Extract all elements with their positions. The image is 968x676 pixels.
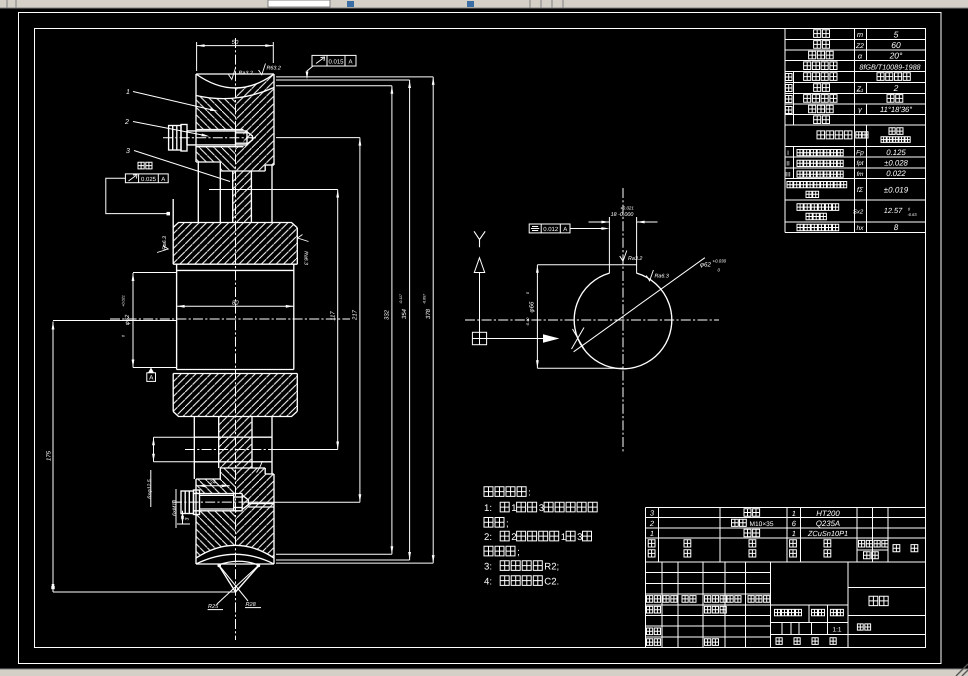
svg-text:3: 3 xyxy=(539,503,544,514)
bolt M10 top: thread xyxy=(235,131,237,145)
UCS Y axis arrow xyxy=(479,273,481,332)
roughness Ra6.3 bore xyxy=(646,270,653,281)
bolt centerline bottom xyxy=(172,501,258,503)
hub sleeve end faces xyxy=(176,264,178,369)
bore bottom edge xyxy=(177,369,294,371)
title block stage mark weight scale xyxy=(775,609,802,615)
svg-text:4:: 4: xyxy=(484,577,492,588)
svg-text:φ62: φ62 xyxy=(124,314,131,325)
tolerance frame 0.025 A xyxy=(125,174,168,183)
roughness Ra3.2 keyway xyxy=(620,251,627,262)
dimension 175 left xyxy=(52,322,54,593)
main vertical centerline xyxy=(235,38,237,640)
svg-text:3: 3 xyxy=(577,532,582,543)
svg-text:3: 3 xyxy=(184,517,190,520)
bolt M10 top: washer xyxy=(181,125,187,152)
rim lower edges xyxy=(195,479,197,564)
dimension 50 top xyxy=(196,42,198,71)
svg-text:m: m xyxy=(857,30,863,39)
table row: inspection header xyxy=(817,131,852,139)
svg-text:φ62: φ62 xyxy=(700,261,711,268)
roughness Ra3.2 on throat xyxy=(229,68,236,80)
dimension 217 xyxy=(359,138,361,503)
title block sheet row xyxy=(776,638,782,645)
dimension 3 xyxy=(182,511,184,524)
svg-text:ZCuSn10P1: ZCuSn10P1 xyxy=(807,529,848,538)
svg-text:0.025: 0.025 xyxy=(141,176,157,183)
tip V lines xyxy=(219,566,235,592)
roughness R63.2 on throat xyxy=(259,64,266,75)
toolbar strip top xyxy=(0,0,968,8)
bolt hole clearance bottom xyxy=(194,494,242,511)
svg-text:3:: 3: xyxy=(484,562,492,573)
svg-text:Ra3.2: Ra3.2 xyxy=(628,256,642,262)
svg-text:Z2: Z2 xyxy=(855,43,864,50)
table row: lead angle xyxy=(809,105,834,113)
hub flange bottom face / keyway line xyxy=(173,263,297,265)
svg-text:50: 50 xyxy=(232,39,239,46)
svg-text:117: 117 xyxy=(329,311,336,321)
svg-text:fΣ: fΣ xyxy=(857,186,864,194)
lower web column hatch xyxy=(219,417,252,469)
svg-text:1: 1 xyxy=(561,532,566,543)
svg-text:12.57: 12.57 xyxy=(884,206,903,215)
small marks right section xyxy=(857,624,870,630)
joint verticals top xyxy=(197,162,199,223)
bolt M10 bottom: washer xyxy=(194,490,200,515)
svg-text:III: III xyxy=(785,171,791,178)
svg-text:18 -0.000: 18 -0.000 xyxy=(611,212,634,218)
svg-text:6×M10: 6×M10 xyxy=(172,500,178,516)
table row: worm type xyxy=(804,73,837,81)
svg-text:80: 80 xyxy=(232,299,239,306)
table row: axis angle tolerance xyxy=(787,182,847,188)
hub flange bottom outline xyxy=(173,411,297,416)
UCS X axis arrow xyxy=(487,338,545,340)
svg-text:8fGB/T10089-1988: 8fGB/T10089-1988 xyxy=(859,63,920,72)
table row: starts z1 2 xyxy=(814,84,830,92)
svg-text:1: 1 xyxy=(792,509,796,518)
dimension phi62 bore xyxy=(132,273,134,368)
svg-text:Ra6.3: Ra6.3 xyxy=(655,273,669,279)
svg-text:hх: hх xyxy=(857,225,865,232)
svg-text:2: 2 xyxy=(649,519,655,528)
table row: accuracy grade xyxy=(804,62,837,70)
keyway slot sides xyxy=(608,217,610,273)
joint verticals bottom xyxy=(193,417,195,480)
bolt M10 bottom: tip cone xyxy=(242,495,248,510)
right view horizontal centerline xyxy=(465,319,719,321)
dimension 24 bottom bolt xyxy=(197,485,229,487)
tolerance frame 0.015 A xyxy=(312,55,356,66)
rim bottom steps top half xyxy=(196,161,220,163)
svg-text:I: I xyxy=(787,150,789,157)
title block check row xyxy=(647,628,661,635)
svg-text:Sх2: Sх2 xyxy=(853,209,864,216)
rim upper section hatch left xyxy=(196,88,274,172)
dimension 332 xyxy=(391,86,393,555)
table row: hand of spiral xyxy=(804,95,837,103)
svg-text:A: A xyxy=(161,176,165,183)
part name worm wheel xyxy=(869,596,888,605)
roughness check lower rim xyxy=(257,461,263,473)
svg-text:378: 378 xyxy=(425,308,432,319)
svg-text::: : xyxy=(528,488,531,499)
svg-text:0.022: 0.022 xyxy=(886,169,906,178)
svg-text:II: II xyxy=(786,161,790,168)
svg-text:6×φ12.5: 6×φ12.5 xyxy=(147,479,153,499)
svg-text:+0.021: +0.021 xyxy=(122,295,126,307)
svg-text:-0.63: -0.63 xyxy=(907,212,917,217)
bottom throat arc B xyxy=(196,554,274,564)
svg-text:Ra3.2: Ra3.2 xyxy=(239,70,253,76)
rim throat band hatch right xyxy=(196,74,274,99)
tapped hole lines bottom xyxy=(248,503,274,505)
rim bottom face xyxy=(196,563,274,565)
svg-text:R63.2: R63.2 xyxy=(267,65,281,71)
svg-text:Q235A: Q235A xyxy=(816,519,840,528)
bore diameter diagonal xyxy=(574,258,705,352)
table row: teeth z2 60 xyxy=(814,41,830,49)
svg-text:1: 1 xyxy=(650,529,654,538)
upper hub flange hatch xyxy=(173,223,297,265)
svg-text:Ra6.3: Ra6.3 xyxy=(162,236,168,250)
keyway width dimension 18 xyxy=(589,221,610,223)
bolt hole walls top xyxy=(196,129,244,131)
vertical group label mating worm xyxy=(785,74,792,81)
bolt M10 top: tip cone xyxy=(247,132,252,144)
svg-text:M10×35: M10×35 xyxy=(750,521,774,528)
web hole lines bottom xyxy=(194,436,272,438)
symmetry tolerance frame 0.012 A xyxy=(529,224,570,233)
bolt M10 bottom: shaft xyxy=(200,494,234,496)
svg-text:α: α xyxy=(858,51,863,60)
bolt M10 bottom: head xyxy=(181,491,194,514)
bolt hole walls bottom xyxy=(194,493,242,495)
bolt M10 bottom: thread xyxy=(233,494,235,511)
title block process row xyxy=(647,639,661,646)
dimension 117 xyxy=(337,190,339,450)
table row: drawing no xyxy=(814,116,830,124)
svg-text:-0.117: -0.117 xyxy=(399,293,403,304)
svg-text:Ra6.3: Ra6.3 xyxy=(303,251,309,265)
svg-text:A: A xyxy=(348,59,352,66)
BOM table grid xyxy=(646,506,926,508)
dimension 354 xyxy=(409,80,411,560)
roughness Ra6.3 flange upper xyxy=(157,246,168,253)
bottom throat arc A xyxy=(196,545,274,558)
title block row labels xyxy=(647,596,661,603)
bolt hole clearance top xyxy=(196,130,244,147)
svg-text:175: 175 xyxy=(46,450,53,461)
svg-text:+0.030: +0.030 xyxy=(713,259,727,264)
svg-text:11°18'36″: 11°18'36″ xyxy=(880,105,912,114)
gear axis centerline xyxy=(110,318,350,320)
bolt M10 top: head xyxy=(169,126,181,151)
svg-text:0.125: 0.125 xyxy=(886,148,906,157)
svg-text:2: 2 xyxy=(511,532,516,543)
svg-text:60: 60 xyxy=(891,40,901,50)
hub flange top outline xyxy=(173,223,297,228)
roughness Ra6.3 flange right xyxy=(298,235,309,242)
resize grip cursor mark bottom-right xyxy=(956,664,968,676)
rim top steps bottom half xyxy=(196,478,220,480)
BOM header xyxy=(648,540,655,547)
svg-text:fрt: fрt xyxy=(857,160,864,167)
table row: pressure angle 20 xyxy=(809,51,834,59)
svg-text:φ66: φ66 xyxy=(529,301,536,312)
svg-text:fm: fm xyxy=(857,171,864,178)
svg-text:R2;: R2; xyxy=(544,562,559,573)
svg-text:C2.: C2. xyxy=(544,577,559,588)
svg-text:354: 354 xyxy=(401,308,408,319)
svg-text:-0.40: -0.40 xyxy=(526,317,530,327)
bore top edge xyxy=(177,269,294,271)
rim left edge xyxy=(195,74,197,162)
table row: tooth thickness xyxy=(797,204,839,211)
svg-text:-0.057: -0.057 xyxy=(423,293,427,304)
svg-text:HT200: HT200 xyxy=(816,509,840,518)
toolbar strip bottom xyxy=(0,669,968,676)
svg-text:1:: 1: xyxy=(484,503,492,514)
svg-text:2:: 2: xyxy=(484,532,492,543)
lower hub flange hatch xyxy=(173,374,297,417)
throat arc outer xyxy=(196,74,274,88)
svg-text:;: ; xyxy=(517,547,520,558)
svg-text:0.012: 0.012 xyxy=(543,226,559,233)
keyway bottom flat xyxy=(609,264,636,266)
svg-text:2: 2 xyxy=(893,83,899,93)
lower flange top face xyxy=(173,373,297,375)
svg-text:;: ; xyxy=(506,518,509,529)
bolt centerline top xyxy=(163,137,258,139)
table row: module m 5 xyxy=(814,30,830,38)
rim lower section hatch left xyxy=(196,468,274,558)
right view vertical centerline xyxy=(622,188,624,452)
svg-text:3: 3 xyxy=(126,148,130,155)
throat arc root xyxy=(196,88,274,99)
UCS icon origin box xyxy=(472,332,486,344)
rim upper section hatch right xyxy=(196,88,274,172)
svg-text:±0.019: ±0.019 xyxy=(884,186,909,195)
svg-text:1: 1 xyxy=(126,89,130,96)
svg-text:217: 217 xyxy=(351,309,358,321)
dimension 6xphi12.5 xyxy=(153,437,155,462)
gear parameter table xyxy=(785,28,926,30)
svg-text:Z̲₁: Z̲₁ xyxy=(856,86,864,93)
svg-text:+0.021: +0.021 xyxy=(620,205,634,210)
svg-text:A: A xyxy=(149,374,154,381)
bore circle with keyway cut xyxy=(574,273,672,369)
bolt M10 top: shaft xyxy=(187,130,247,132)
dimension 80 hub length xyxy=(177,305,294,307)
svg-text:1: 1 xyxy=(511,503,516,514)
rim outline top xyxy=(196,73,274,75)
X mark on circle xyxy=(573,329,586,351)
svg-text:20°: 20° xyxy=(889,51,903,61)
svg-text:332: 332 xyxy=(383,309,390,320)
svg-text:5: 5 xyxy=(894,30,899,40)
svg-text:8: 8 xyxy=(894,223,899,232)
table row: chordal height xyxy=(797,224,839,231)
datum A xyxy=(148,368,154,373)
rim lower section hatch right xyxy=(196,468,274,558)
svg-text:Fр: Fр xyxy=(856,150,864,157)
rim right edge xyxy=(273,74,275,165)
bottom throat arc C xyxy=(219,561,259,565)
svg-text:2: 2 xyxy=(124,119,129,126)
technical requirements notes xyxy=(484,487,526,497)
dimension 378 xyxy=(432,77,434,563)
svg-text:0.015: 0.015 xyxy=(328,59,344,66)
svg-text:A: A xyxy=(563,226,567,233)
dimension phi66 xyxy=(536,265,538,369)
svg-text:24: 24 xyxy=(208,480,216,487)
title block grid xyxy=(646,561,771,563)
svg-text:±0.028: ±0.028 xyxy=(884,159,908,168)
title block design row xyxy=(647,606,661,613)
svg-text:1:1: 1:1 xyxy=(833,626,842,633)
upper web column hatch xyxy=(233,171,252,223)
svg-text:1: 1 xyxy=(792,529,796,538)
